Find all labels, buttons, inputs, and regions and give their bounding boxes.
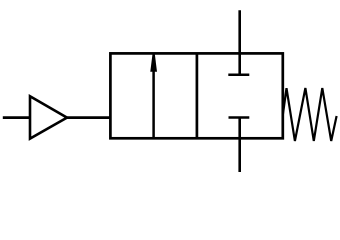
- flow arrow shaft: [152, 71, 155, 139]
- valve body: [110, 53, 282, 138]
- bottom port line: [238, 118, 241, 173]
- flow arrow head: [150, 54, 157, 72]
- bottom port closed bar: [229, 116, 250, 119]
- wire pilot to valve body: [67, 116, 110, 119]
- return spring: [283, 88, 337, 141]
- top port closed bar: [228, 74, 249, 77]
- pilot actuator triangle: [30, 96, 67, 138]
- top port line: [238, 10, 241, 75]
- valve position divider: [196, 53, 199, 138]
- wire pilot input: [3, 116, 30, 119]
